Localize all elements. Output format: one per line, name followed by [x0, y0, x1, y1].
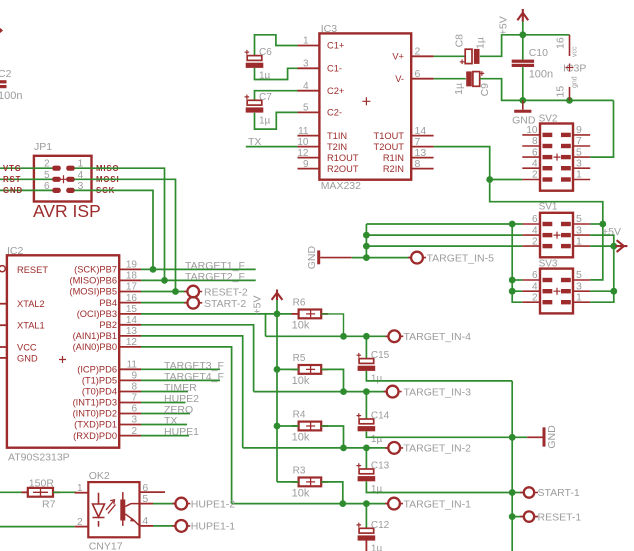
svg-text:SV1: SV1	[539, 202, 558, 213]
svg-text:6: 6	[532, 270, 538, 281]
wire SV1 pin3 chain	[590, 235, 614, 302]
junction SV1 pin5	[599, 221, 606, 228]
svg-text:17: 17	[126, 282, 138, 293]
svg-text:RESET: RESET	[17, 265, 48, 275]
svg-text:10k: 10k	[292, 375, 310, 387]
svg-text:12: 12	[126, 337, 138, 348]
wire C13 top	[365, 448, 367, 469]
wire C7 bottom to pin5	[255, 112, 298, 129]
wire R5 left	[277, 368, 299, 370]
svg-text:T1OUT: T1OUT	[374, 131, 405, 141]
svg-text:8: 8	[532, 136, 538, 147]
wire SV3 feed vertical	[512, 224, 522, 302]
svg-text:10k: 10k	[292, 432, 310, 444]
wire C15 bottom	[366, 371, 512, 381]
svg-text:6: 6	[415, 68, 421, 80]
svg-text:R7: R7	[42, 499, 56, 511]
svg-text:gnd: gnd	[572, 76, 579, 88]
wire SV1 left vertical	[365, 224, 367, 258]
OK2 pin 6 stub	[140, 491, 166, 493]
svg-text:XTAL2: XTAL2	[17, 299, 45, 309]
svg-text:1µ: 1µ	[371, 374, 383, 385]
svg-text:HUPE1: HUPE1	[164, 426, 199, 438]
svg-text:TARGET2_F: TARGET2_F	[185, 271, 245, 283]
junction C15-row4	[363, 333, 370, 340]
svg-text:1µ: 1µ	[371, 434, 383, 445]
svg-text:5: 5	[576, 269, 582, 281]
IC3 pin 1 stub	[298, 45, 320, 47]
svg-text:R6: R6	[293, 297, 306, 308]
svg-text:+5V: +5V	[498, 16, 510, 35]
OK2 pin 5 stub	[140, 503, 154, 505]
IC2 pin 13 stub	[119, 335, 141, 337]
wire PB3 step down	[265, 314, 267, 336]
svg-text:10: 10	[297, 137, 309, 148]
svg-text:C10: C10	[529, 47, 548, 59]
pad TARGET_IN-3	[384, 391, 402, 393]
wire PB4 net	[141, 302, 187, 304]
svg-text:6: 6	[532, 214, 538, 225]
wire GND vertical right	[511, 381, 513, 551]
wire PB2 net	[141, 325, 254, 392]
svg-text:1: 1	[576, 169, 582, 181]
OK2 LED	[93, 493, 105, 527]
wire MISO	[74, 168, 164, 280]
svg-text:8: 8	[415, 158, 421, 170]
OK2 pin 4 stub	[140, 525, 154, 527]
wire fragment at left edge	[0, 29, 2, 33]
junction C14-row3	[363, 388, 370, 395]
IC3 pin 7 stub	[411, 146, 433, 148]
svg-text:16: 16	[126, 293, 138, 304]
IC2 AT90S2313P box	[7, 255, 119, 447]
svg-text:V+: V+	[392, 52, 404, 62]
wire ZERO net	[141, 413, 190, 415]
svg-text:VCC: VCC	[17, 342, 37, 352]
svg-text:C15: C15	[371, 350, 390, 361]
resistor R7	[22, 491, 28, 493]
wire PB1 net	[141, 336, 243, 448]
wire +5V to rail	[522, 22, 524, 35]
ground symbol top	[522, 100, 524, 109]
JP1 origin cross	[60, 175, 68, 183]
svg-text:AT90S2313P: AT90S2313P	[8, 452, 70, 464]
wire R5 out	[321, 369, 343, 391]
resistor R6	[292, 313, 299, 315]
junction +5V R5	[274, 366, 281, 373]
svg-text:V-: V-	[395, 74, 404, 84]
junction +5V right	[610, 243, 617, 250]
IC2 pin 9 stub	[119, 379, 141, 381]
wire T2OUT	[434, 147, 603, 280]
wire START-1	[512, 492, 523, 494]
wire SV1 pin1	[590, 245, 614, 247]
svg-text:(AIN1)PB1: (AIN1)PB1	[73, 331, 117, 341]
wire R3 out	[321, 482, 343, 504]
capacitor C7	[245, 95, 250, 100]
svg-text:(MOSI)PB5: (MOSI)PB5	[69, 287, 117, 297]
IC2 pin 19 stub	[119, 268, 141, 270]
IC2 pin 17 stub	[119, 291, 141, 293]
junction GND rail IC3P	[566, 97, 573, 104]
svg-text:R2OUT: R2OUT	[327, 164, 359, 174]
svg-text:(OCI)PB3: (OCI)PB3	[77, 309, 117, 319]
svg-text:2: 2	[415, 46, 421, 58]
IC2 pin 15 stub	[119, 313, 141, 315]
wire TX net	[141, 424, 187, 426]
wire SV1 pin2 row	[366, 245, 522, 247]
svg-text:4: 4	[142, 515, 148, 527]
svg-text:1: 1	[303, 36, 309, 47]
svg-text:+5V: +5V	[252, 296, 264, 315]
junction START-1	[509, 489, 516, 496]
svg-text:11: 11	[298, 126, 309, 137]
svg-text:OK2: OK2	[89, 470, 110, 482]
junction GND rail C10	[519, 97, 526, 104]
junction RESET-1	[509, 513, 516, 520]
wire to GND symbol	[512, 436, 527, 438]
svg-text:9: 9	[131, 371, 137, 382]
svg-text:TARGET_IN-2: TARGET_IN-2	[404, 443, 472, 455]
optocoupler OK2 box	[88, 482, 139, 537]
wire R4 left	[277, 425, 299, 427]
svg-text:GND: GND	[17, 353, 38, 363]
svg-text:vcc: vcc	[572, 46, 579, 57]
connector JP1 box	[34, 156, 92, 202]
wire C14 top	[365, 392, 367, 419]
wire R3 left	[277, 481, 299, 483]
svg-text:1: 1	[77, 483, 83, 494]
svg-text:C12: C12	[371, 520, 390, 531]
svg-text:150R: 150R	[29, 478, 55, 490]
wire SV3 pin4	[512, 290, 522, 292]
wire SV3 pin3	[590, 290, 614, 292]
svg-text:HUPE1-2: HUPE1-2	[191, 498, 236, 510]
svg-text:T1IN: T1IN	[327, 131, 347, 141]
wire PB5 net	[141, 291, 187, 293]
IC3 pin 14 stub	[411, 135, 433, 137]
svg-text:13: 13	[126, 326, 138, 337]
svg-text:(T1)PD5: (T1)PD5	[82, 376, 117, 386]
wire TARGET_IN-1 row	[232, 503, 389, 505]
IC2 pin 7 stub	[119, 402, 141, 404]
svg-text:1: 1	[576, 235, 582, 247]
svg-text:TARGET_IN-1: TARGET_IN-1	[404, 498, 472, 510]
svg-text:C13: C13	[371, 461, 390, 472]
svg-text:R4: R4	[293, 410, 306, 421]
IC3 pin 5 stub	[298, 111, 320, 113]
svg-text:5: 5	[44, 170, 50, 181]
wire C14 bottom	[366, 431, 512, 437]
wire HUPE1 net	[141, 435, 189, 437]
svg-text:1µ: 1µ	[371, 543, 383, 551]
junction sv1-4	[363, 232, 370, 239]
svg-text:HUPE1-1: HUPE1-1	[191, 521, 236, 533]
svg-text:R5: R5	[293, 353, 306, 364]
IC3 pin 3 stub	[298, 67, 320, 69]
svg-text:15: 15	[555, 86, 567, 98]
wire V+ to C8	[434, 55, 466, 57]
svg-text:CNY17: CNY17	[89, 541, 123, 551]
svg-text:RESET-1: RESET-1	[538, 511, 582, 523]
svg-text:T2OUT: T2OUT	[374, 142, 405, 152]
wire OK2 pin5 to HUPE1-2	[153, 503, 175, 505]
pad START-2	[184, 302, 202, 304]
wire TARGET3_F net	[141, 368, 220, 370]
JP1 pad pin 3	[66, 188, 75, 193]
junction SV3 pin3	[610, 288, 617, 295]
svg-text:10k: 10k	[292, 487, 310, 499]
svg-text:C7: C7	[259, 92, 272, 103]
JP1 pad pin 4	[66, 177, 75, 182]
svg-text:(INT0)PD2: (INT0)PD2	[73, 409, 117, 419]
svg-text:PB2: PB2	[99, 320, 117, 330]
IC2 pin 8 stub	[119, 391, 141, 393]
svg-text:+5V: +5V	[602, 226, 621, 238]
IC3 pin 6 stub	[411, 78, 433, 80]
svg-text:8: 8	[131, 382, 137, 393]
resistor R3	[292, 481, 299, 483]
svg-text:2: 2	[131, 426, 137, 437]
wire SCK	[74, 190, 153, 269]
svg-text:11: 11	[127, 360, 138, 371]
wire to JP1 pin 5	[0, 178, 53, 180]
junction SV2 pin2	[486, 176, 493, 183]
JP1 pad pin 6	[52, 188, 61, 193]
junction sv1-2	[363, 243, 370, 250]
wire C9 to GND rail	[480, 79, 614, 101]
svg-text:7: 7	[131, 393, 137, 404]
svg-text:1: 1	[576, 291, 582, 303]
IC3 pin 9 stub	[298, 168, 320, 170]
+5V symbol mid	[272, 290, 283, 301]
IC2 left pin VCC	[0, 346, 7, 348]
svg-text:C2-: C2-	[327, 108, 342, 118]
wire TX to pin10	[246, 146, 298, 148]
pad HUPE1-2	[172, 503, 190, 505]
wire PB3 net	[141, 313, 293, 315]
capacitor C15	[357, 353, 362, 358]
svg-text:XTAL1: XTAL1	[17, 321, 45, 331]
IC2 left pin XTAL2	[0, 303, 7, 305]
ground symbol right	[527, 436, 542, 438]
pad RESET-1	[520, 516, 538, 518]
wire TARGET_IN-4 row	[266, 335, 389, 337]
junction +5V R4	[274, 423, 281, 430]
wire to SV1 pin5	[590, 223, 603, 225]
svg-text:16: 16	[555, 37, 567, 49]
IC2 pin 18 stub	[119, 279, 141, 281]
junction MISO-PB6	[161, 277, 168, 284]
svg-text:AVR ISP: AVR ISP	[33, 201, 101, 221]
wire C10 top	[522, 35, 524, 60]
JP1 pad pin 1	[66, 166, 75, 171]
junction SV1 pin6	[509, 221, 516, 228]
wire OK2 pin4 to HUPE1-1	[153, 525, 175, 527]
junction top rail	[519, 31, 526, 38]
wire C10 bottom	[522, 67, 524, 100]
pad START-1	[520, 492, 538, 494]
svg-text:18: 18	[126, 271, 138, 282]
wire SV1 pin4 row	[366, 234, 522, 236]
pad HUPE1-1	[172, 525, 190, 527]
svg-text:C6: C6	[259, 47, 272, 58]
IC3P gnd pin 15	[569, 87, 571, 100]
IC3P vcc pin 16	[569, 35, 571, 56]
wire PB0 net	[141, 347, 232, 504]
wire TARGET_IN-5	[352, 257, 412, 259]
svg-text:(RXD)PD0: (RXD)PD0	[73, 431, 117, 441]
svg-text:C1+: C1+	[327, 41, 344, 51]
wire R7 to OK2	[53, 491, 76, 493]
IC3 origin cross	[362, 97, 370, 105]
svg-text:R1OUT: R1OUT	[327, 153, 359, 163]
wire C6 top to pin1	[255, 35, 298, 55]
svg-text:15: 15	[126, 304, 138, 315]
junction target5	[363, 254, 370, 261]
wire C13 bottom	[366, 481, 512, 492]
+5V rail vertical	[276, 300, 278, 482]
wire HUPE2 net	[141, 402, 186, 404]
svg-text:PB4: PB4	[99, 298, 117, 308]
svg-text:VTG: VTG	[3, 164, 22, 173]
junction +5V R6	[274, 311, 281, 318]
IC3 pin 4 stub	[298, 90, 320, 92]
svg-text:5: 5	[142, 493, 148, 505]
svg-text:6: 6	[131, 404, 137, 415]
junction SCK-PB7	[150, 266, 157, 273]
svg-text:2: 2	[532, 170, 538, 181]
svg-text:RST: RST	[3, 175, 21, 184]
svg-text:(T0)PD4: (T0)PD4	[82, 387, 117, 397]
wire TARGET_IN-3 row	[254, 391, 387, 393]
IC2 pin RESET bubble	[0, 266, 5, 272]
pad TARGET_IN-1	[385, 503, 403, 505]
IC2 pin 3 stub	[119, 424, 141, 426]
junction R3-row1	[339, 500, 346, 507]
svg-text:(AIN0)PB0: (AIN0)PB0	[73, 342, 117, 352]
junction C12-row1	[363, 500, 370, 507]
svg-text:T2IN: T2IN	[327, 142, 347, 152]
wire to JP1 pin 2	[0, 167, 53, 169]
IC2 origin cross	[59, 356, 66, 363]
IC3 pin 8 stub	[411, 168, 433, 170]
junction MOSI-PB5	[172, 288, 179, 295]
svg-text:3: 3	[576, 157, 582, 169]
junction C13-row2	[363, 445, 370, 452]
IC3 pin 10 stub	[298, 146, 320, 148]
svg-text:1µ: 1µ	[453, 83, 465, 95]
junction R6-row4	[340, 333, 347, 340]
wire GND rail to SV2 pin5	[590, 100, 613, 157]
svg-text:1µ: 1µ	[259, 115, 271, 126]
IC2 pin 16 stub	[119, 302, 141, 304]
wire C8 to +5V rail	[480, 35, 570, 57]
wire PB7 net	[141, 268, 256, 270]
wire TIMER net	[141, 391, 188, 393]
svg-text:C2: C2	[0, 68, 12, 80]
junction R4-row2	[340, 445, 347, 452]
IC3 pin 13 stub	[411, 157, 433, 159]
IC2 pin 12 stub	[119, 346, 141, 348]
resistor R5	[292, 368, 299, 370]
IC2 left pin XTAL1	[0, 324, 7, 326]
svg-text:4: 4	[532, 225, 538, 236]
svg-text:100n: 100n	[529, 69, 553, 81]
svg-text:(TXD)PD1: (TXD)PD1	[74, 420, 117, 430]
svg-text:4: 4	[303, 81, 309, 92]
svg-text:(ICP)PD6: (ICP)PD6	[77, 365, 117, 375]
JP1 pad pin 2	[52, 166, 61, 171]
svg-text:4: 4	[532, 158, 538, 169]
svg-text:TARGET_IN-3: TARGET_IN-3	[404, 386, 472, 398]
svg-text:(MISO)PB6: (MISO)PB6	[69, 276, 117, 286]
wire to R7	[0, 491, 28, 493]
svg-text:START-1: START-1	[538, 487, 580, 499]
capacitor C14	[357, 413, 362, 418]
svg-text:TARGET_IN-4: TARGET_IN-4	[404, 331, 472, 343]
IC3 MAX232 box	[319, 33, 411, 179]
wire to JP1 pin 6	[0, 189, 53, 191]
svg-text:5: 5	[303, 103, 309, 114]
svg-text:3: 3	[303, 59, 309, 70]
svg-text:2: 2	[532, 292, 538, 303]
svg-text:2: 2	[532, 236, 538, 247]
IC2 pin 11 stub	[119, 368, 141, 370]
OK2 pin 1 stub	[75, 492, 89, 494]
svg-text:2: 2	[44, 159, 50, 170]
junction SV3 pin6	[509, 277, 516, 284]
OK2 pin 2 stub	[75, 526, 89, 528]
wire C6 bottom to pin3	[255, 68, 298, 80]
IC3 pin 2 stub	[411, 55, 433, 57]
pad TARGET_IN-5	[408, 257, 426, 259]
wire V- to C9	[434, 78, 466, 80]
svg-text:2: 2	[77, 517, 83, 528]
OK2 phototransistor	[120, 500, 125, 521]
svg-text:C2+: C2+	[327, 86, 344, 96]
svg-text:C1-: C1-	[327, 64, 342, 74]
svg-text:100n: 100n	[0, 90, 22, 102]
pad TARGET_IN-4	[385, 335, 403, 337]
svg-text:MAX232: MAX232	[321, 180, 361, 192]
wire TARGET_IN-2 row	[243, 447, 389, 449]
junction R5-row3	[340, 388, 347, 395]
pad TARGET_IN-2	[385, 447, 403, 449]
svg-text:12: 12	[297, 148, 309, 159]
junction SV3 pin4	[509, 288, 516, 295]
+5V symbol right	[616, 240, 628, 252]
wire SV3 pin6	[512, 279, 522, 281]
wire to SV2 pin2	[490, 179, 523, 181]
svg-text:C14: C14	[371, 411, 390, 422]
svg-text:IC3P: IC3P	[563, 63, 586, 75]
svg-text:4: 4	[532, 281, 538, 292]
svg-text:TARGET_IN-5: TARGET_IN-5	[427, 252, 495, 264]
svg-text:3: 3	[131, 415, 137, 426]
wire SV1 pin6 row	[366, 223, 522, 225]
IC3 pin 11 stub	[298, 135, 320, 137]
wire C7 top to pin4	[255, 91, 298, 101]
svg-text:GND: GND	[3, 186, 23, 195]
svg-text:19: 19	[126, 260, 138, 271]
IC2 pin 2 stub	[119, 435, 141, 437]
wire R4 out	[321, 426, 343, 448]
resistor R4	[292, 425, 299, 427]
junction GND tap	[509, 434, 516, 441]
JP1 pad pin 5	[52, 177, 61, 182]
svg-text:C8: C8	[454, 34, 466, 48]
